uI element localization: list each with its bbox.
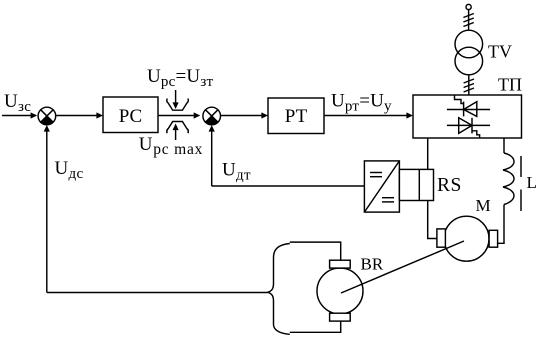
svg-text:RS: RS [437,175,462,196]
arrow up into junction 1 (speed feedback) [44,125,50,293]
shaft M to BR [341,241,464,293]
wire PC to junction 2 [158,112,200,118]
shunt RS with connector [399,169,433,200]
wire BR bottom brush to brace [290,321,341,332]
thyristor VS2 (lower, pointing right) [447,118,490,138]
tachogenerator BR [317,260,363,321]
arrow down (setpoint limit) [173,90,179,109]
block TP (thyristor converter) [413,95,522,138]
supply line lower with slashes [464,75,474,95]
wire Uдт feedback horizontal [212,185,365,187]
block PC (speed regulator) [103,97,158,133]
svg-text:Uрс=Uзт: Uрс=Uзт [147,66,213,90]
DC voltage transducer (=/=) [364,161,399,212]
svg-text:L: L [527,173,537,192]
supply terminal [466,4,471,9]
thyristor VS1 (upper, pointing left) [447,95,490,116]
brace (coupling to Uдс) [268,244,290,335]
wire Uzc input [2,112,37,118]
svg-text:Uзс: Uзс [4,91,31,115]
svg-text:Uрт=Uу: Uрт=Uу [331,91,392,115]
wire Uдс feedback horizontal [47,292,268,294]
svg-text:BR: BR [361,255,384,274]
arrow up (Upc max limit) [173,124,179,141]
wire junction2 to PT [221,112,269,118]
svg-text:Uдт: Uдт [222,160,251,184]
inductor core bars [520,156,522,211]
supply line upper with slashes [463,10,473,30]
inductor L coil [503,153,514,205]
motor M [437,216,498,261]
wire TP bottom-right to inductor [503,138,505,153]
wire inductor to motor right brush [498,205,504,244]
wire TP bottom-left to shunt RS [427,138,429,169]
summing junction 1 [38,107,56,125]
summing junction 2 [203,107,221,125]
wire shunt to motor left brush [428,201,437,239]
svg-text:ТП: ТП [498,75,522,95]
wire BR top brush to brace [290,242,341,260]
transformer TV [455,30,483,75]
wire junction1 to PC [56,112,103,118]
wire PT to TP [324,112,413,118]
svg-text:Uрс max: Uрс max [139,134,204,158]
svg-text:TV: TV [488,42,512,62]
block PT (current regulator) [268,98,324,134]
limiter bracket top [167,99,189,111]
svg-text:М: М [476,196,491,215]
arrow up into junction 2 (current feedback) [209,125,215,186]
svg-text:Uдс: Uдс [55,158,84,182]
limiter bracket bottom [167,122,189,134]
svg-text:РТ: РТ [285,106,308,127]
svg-text:РС: РС [119,106,142,127]
